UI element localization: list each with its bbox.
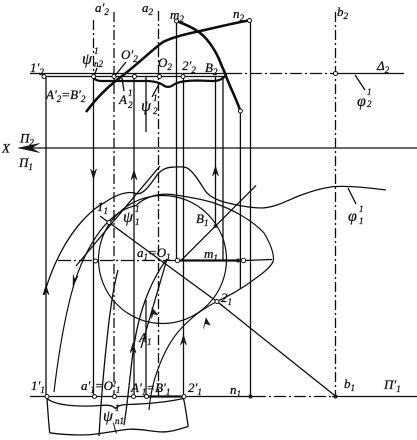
line 2 1 - b 1 [217, 302, 336, 397]
arrow up on vertical B [213, 166, 219, 176]
point b1 [334, 395, 338, 399]
line O1-A1 [141, 259, 167, 348]
vertical B2-crossing (x=225.7) [222, 77, 224, 260]
line 1'2-B2 (solid segment on Delta2) [44, 76, 226, 78]
svg-text:1: 1 [128, 88, 133, 98]
vertical A2 (x=134) [133, 77, 135, 397]
svg-text:1: 1 [359, 216, 364, 226]
svg-text:2: 2 [128, 100, 133, 110]
arrow up on vertical 2' [181, 335, 187, 345]
vertical psi-n (x=93.5) [93, 20, 95, 73]
vertical A1 (x=146) [145, 77, 147, 132]
arrow up on vertical 1' [43, 285, 49, 295]
svg-text:a′2: a′2 [95, 0, 109, 17]
arrow up on vertical A2 [131, 170, 137, 180]
arrow on A1 swoosh [130, 343, 136, 353]
vertical 1' (x=46) [45, 77, 47, 397]
svg-text:1′2: 1′2 [30, 60, 44, 77]
arrow on O1-A1 line [152, 308, 158, 319]
band right edge [184, 399, 189, 427]
point n1 [249, 395, 253, 399]
centerline a1 (dash-dot) [58, 260, 178, 262]
band left edge [47, 399, 50, 433]
ground line Pi'1 [30, 396, 254, 398]
svg-text:ψ: ψ [82, 51, 93, 68]
arrow down on vertical psi-n [91, 169, 97, 179]
svg-text:n2: n2 [94, 59, 104, 69]
svg-text:2′1: 2′1 [188, 380, 202, 397]
svg-text:1: 1 [153, 93, 158, 103]
line 1 1 - 2 1 (diameter) [100, 216, 223, 306]
svg-text:m1: m1 [204, 246, 218, 263]
curve psi1 with cusp (lower) [54, 194, 274, 410]
segment O1-m1 (thick) [178, 259, 238, 261]
svg-text:1′1: 1′1 [31, 378, 45, 395]
filled points [214, 224, 338, 398]
svg-text:ψ: ψ [123, 209, 134, 226]
curve m2 descending (heavy) [177, 21, 241, 111]
svg-text:2: 2 [367, 99, 372, 109]
svg-text:b2: b2 [337, 4, 349, 21]
svg-text:1: 1 [367, 87, 372, 97]
svg-text:1: 1 [135, 204, 140, 214]
points bottom line [45, 395, 49, 399]
line m1-B1 extended [181, 186, 256, 261]
svg-text:φ: φ [348, 208, 357, 225]
vertical B (x=215.5) [215, 77, 217, 227]
point on centerline left [94, 259, 98, 263]
svg-text:A: A [118, 92, 127, 107]
svg-text:1: 1 [94, 46, 99, 56]
leader O'2 [116, 62, 127, 75]
leader psi n2 [95, 68, 98, 75]
svg-text:B2: B2 [205, 60, 218, 77]
psi descender [114, 423, 117, 434]
vertical 2' (x=183.5) [183, 77, 185, 397]
arrow on psi1 curve near 2 1 [204, 318, 211, 329]
svg-text:a2: a2 [142, 0, 154, 17]
arrow X axis left [19, 143, 40, 152]
axis a'2 vertical (x=114, dash-dot) [113, 12, 115, 397]
segment m1 extension [244, 260, 273, 261]
vertical n (x=250.5) [250, 21, 252, 397]
point 2 1 [215, 300, 219, 304]
trajectory of A1 (swoosh) [124, 259, 167, 425]
arrow on psi1 curve head [70, 275, 78, 287]
svg-text:П1: П1 [18, 155, 33, 172]
point n2 [248, 19, 252, 23]
point curve end [238, 109, 242, 113]
svg-text:ψ: ψ [141, 98, 152, 115]
axis b vertical (x=335.5, dash-dot) [335, 12, 337, 397]
point b2 [334, 72, 338, 76]
point centerline end [241, 258, 245, 262]
bottom break band (plane Psi n1) top wavy [47, 399, 184, 409]
svg-text:ψ: ψ [103, 408, 114, 425]
point 1 1 [107, 221, 111, 225]
svg-text:m2: m2 [170, 7, 184, 24]
thick trace on ground line [147, 395, 184, 397]
curve Psi2 (thick frontal trace) [94, 75, 226, 87]
trajectory arc of point 1 (swoosh) [99, 270, 118, 436]
point m2 [175, 19, 179, 23]
axis Delta2 (solid left, dash-dot middle, solid right) [30, 73, 230, 75]
curve m2-n2 rising (heavy) [86, 21, 249, 113]
svg-text:n1: n1 [115, 416, 124, 426]
svg-text:n2: n2 [233, 6, 245, 23]
svg-text:Δ2: Δ2 [376, 58, 390, 75]
svg-text:O2: O2 [158, 55, 172, 72]
chord through 1 1 [76, 166, 160, 266]
svg-text:a′1=O′1: a′1=O′1 [81, 378, 120, 395]
leader psi2 [152, 84, 159, 97]
svg-text:21: 21 [221, 290, 232, 307]
leader phi1 [348, 188, 356, 204]
leader A2 [122, 78, 124, 91]
leader phi2 [355, 75, 365, 90]
point B1 [214, 224, 218, 228]
svg-text:b1: b1 [344, 376, 355, 393]
svg-text:1: 1 [135, 217, 140, 227]
point circles top line [42, 19, 338, 399]
bottom break band bottom wavy [50, 427, 189, 435]
svg-text:X: X [1, 141, 11, 156]
svg-text:A1: A1 [138, 330, 151, 347]
curve phi1 wavy (upper) [44, 167, 386, 295]
svg-text:A′1=B′1: A′1=B′1 [130, 380, 170, 397]
svg-text:a1=O1: a1=O1 [137, 245, 171, 262]
svg-text:2: 2 [153, 106, 158, 116]
svg-text:1: 1 [359, 204, 364, 214]
X axis Pi2/Pi1 [19, 147, 417, 149]
svg-text:П2: П2 [19, 131, 34, 148]
point m1 rotated [236, 259, 240, 263]
circle (horizontal projection) [99, 196, 227, 324]
vertical from curve end (x=240.4) [239, 111, 241, 289]
svg-text:O′2: O′2 [121, 47, 138, 64]
svg-text:n1: n1 [230, 382, 241, 399]
svg-text:2′2: 2′2 [182, 58, 196, 75]
point O1 [175, 258, 179, 262]
svg-text:1: 1 [115, 403, 120, 413]
axis a2 vertical (x=158.5, dash-dot) [158, 11, 160, 397]
svg-text:A′2=B′2: A′2=B′2 [45, 87, 86, 104]
vertical m (x=176.5) [176, 21, 178, 261]
svg-text:φ: φ [357, 93, 366, 110]
svg-text:П′1: П′1 [383, 377, 401, 394]
